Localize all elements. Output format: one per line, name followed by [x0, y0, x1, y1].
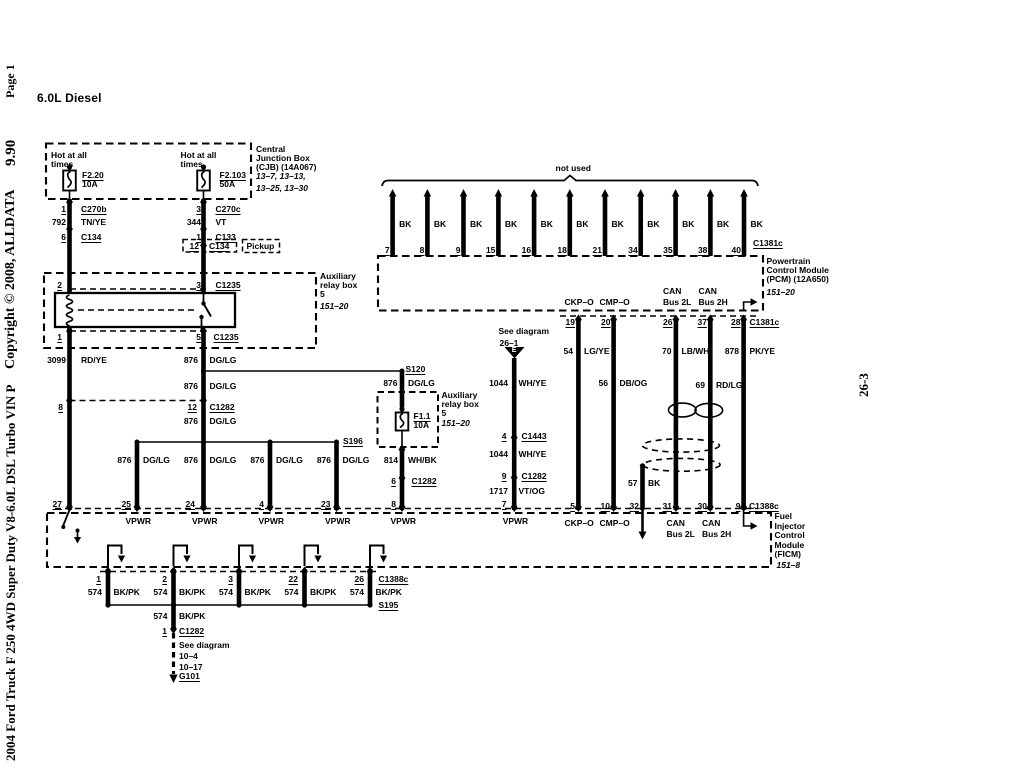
wire 574 BK/PK 2	[171, 569, 176, 605]
sidebar vehicle text	[3, 385, 19, 761]
ground G101 arrow	[169, 675, 177, 684]
connector C1282 marker on WH/BK	[399, 473, 406, 483]
not-used wire BK pin 34	[638, 194, 643, 256]
S196 junction dot 3	[268, 440, 273, 445]
wire from PCM x=613.6	[611, 318, 616, 510]
pin 12 C134 pickup labels	[190, 242, 199, 251]
wire label 1044 WH/YE second	[489, 450, 508, 459]
splice S120 junction dot	[201, 369, 206, 374]
PCM page-reference arrow hook	[744, 302, 751, 311]
pin 9 C1282 labels feed	[502, 472, 507, 481]
relay pin 3 and C1235 labels	[196, 281, 201, 290]
wire labels 56 DB/OG 69 RD/LG	[599, 379, 608, 388]
BK wire down arrow	[639, 532, 647, 540]
FICM injector output hook 3	[239, 546, 253, 567]
Auxiliary relay box 5 dashed box (relay)	[44, 273, 316, 348]
Auxiliary relay box 5 label (right)	[442, 391, 478, 400]
FICM power relay solid box	[55, 293, 235, 327]
splice S196 label	[343, 437, 363, 446]
wire label 792 TN/YE	[52, 218, 66, 227]
not-used wire BK pin 15	[496, 194, 501, 256]
connector exit marker wire A	[66, 197, 73, 207]
connector C134 pickup marker wire B	[200, 241, 207, 251]
fuse F2.103 label	[220, 171, 246, 180]
wire 814 WH/BK	[400, 447, 405, 510]
pin 1 C133 labels	[196, 233, 201, 242]
connector C1381c label top	[753, 239, 783, 248]
FICM pin entry marker	[200, 502, 207, 512]
S196 junction dot 4	[334, 440, 339, 445]
relay pin 2 label	[57, 281, 62, 290]
marker below aux box	[399, 445, 406, 455]
wire 574 BK/PK 1	[106, 569, 111, 605]
wire labels 876 DG/LG drops	[117, 456, 131, 465]
PCM output labels CKP-O CMP-O CAN	[565, 298, 594, 307]
PCM pin labels 19 20 26 37 28	[566, 318, 575, 327]
wire 876 DG/LG drop 4 to FICM	[334, 442, 339, 510]
PCM title text	[767, 257, 811, 266]
BK wire labels	[399, 220, 411, 229]
wire label 876 DG/LG third	[184, 417, 198, 426]
connector C1443 marker	[511, 433, 518, 443]
wire label 1717 VT/OG	[489, 487, 508, 496]
wire to splice S120	[204, 370, 403, 372]
fuse F1.1 label	[414, 412, 431, 421]
connector C1388c label right	[749, 502, 779, 511]
FICM pin entry marker	[267, 502, 274, 512]
dashed link pin8 to pin12 C1282	[70, 400, 204, 402]
pin 1 C270b labels	[61, 205, 66, 214]
connector C1235 dashed row bottom	[70, 330, 207, 332]
page title 6.0L Diesel	[37, 94, 102, 103]
page number 26-3	[856, 373, 872, 397]
Auxiliary relay box 5 dashed box (fuse F1.1)	[378, 392, 439, 447]
connector C134 marker wire A	[66, 224, 73, 234]
FICM pin entry marker	[333, 502, 340, 512]
pin 6 C134 labels	[61, 233, 66, 242]
Central Junction Box (CJB) dashed box	[46, 144, 251, 200]
dashed box around 12 C134	[183, 240, 237, 253]
connector C1381c dashed row bottom	[560, 315, 758, 317]
wire from PCM x=675.9	[674, 318, 679, 510]
S120 top dot	[400, 369, 405, 374]
FICM page-reference arrow hook	[744, 511, 751, 526]
wire 876 DG/LG drop 3 to FICM	[268, 442, 273, 510]
wire VT circuit 344	[201, 199, 206, 293]
FICM injector output hook 2	[174, 546, 188, 567]
FICM pin labels 27 25 24 4 23 8	[53, 500, 62, 509]
not-used pin number labels	[385, 246, 390, 255]
not-used wire BK pin 21	[603, 194, 608, 256]
wire 574 BK/PK 5	[368, 569, 373, 605]
connector C133 marker wire B	[200, 224, 207, 234]
FICM pin labels 5 10 32 31 30 9	[570, 502, 575, 511]
FICM internal switch below pin 27	[63, 510, 70, 526]
FICM pin entry marker	[134, 502, 141, 512]
S196 junction dot 1	[135, 440, 140, 445]
wire S120 down to fuse F1.1	[400, 371, 405, 407]
CJB title text	[256, 145, 285, 154]
FICM pin entry marker	[399, 502, 406, 512]
FICM injector output hook 5	[370, 546, 384, 567]
wire relay contact to pin 5	[201, 317, 203, 331]
connector C1235 dashed row top	[70, 288, 207, 290]
fuse F2.20 label	[82, 171, 104, 180]
not-used wire BK pin 18	[567, 194, 572, 256]
wire 574 BK/PK to ground	[171, 605, 176, 628]
not-used wire BK pin 35	[673, 194, 678, 256]
wire TN/YE circuit 792	[67, 199, 72, 293]
FICM pin entry marker	[66, 502, 73, 512]
not used label	[556, 164, 591, 173]
hot at all times label left	[51, 151, 87, 160]
pin 8 label on RD/YE wire	[58, 403, 63, 412]
wire 574 BK/PK 4	[302, 569, 307, 605]
letter E in triangle	[512, 346, 517, 355]
not-used wire BK pin 8	[425, 194, 430, 256]
see diagram note ground	[179, 641, 230, 650]
splice S120 label	[406, 365, 426, 374]
connector marker pin1 C1235	[66, 326, 73, 336]
connector C1388c label (outputs)	[379, 575, 409, 584]
wire from PCM x=743.6	[741, 318, 746, 510]
pin 6 C1282 labels on WH/BK	[391, 477, 396, 486]
wire label 574 BK/PK ground	[153, 612, 167, 621]
wire labels 574 BK/PK	[88, 588, 102, 597]
wire 57 BK shield drain	[640, 466, 645, 510]
not-used wire BK pin 16	[532, 194, 537, 256]
connector C1388c dashed row (top)	[55, 508, 758, 510]
wire label 876 DG/LG first	[184, 356, 198, 365]
wire labels 54 LG/YE 70 LB/WH 878 PK/YE	[564, 347, 573, 356]
fuse F2.103 50A	[197, 164, 210, 190]
wire label 3099 RD/YE	[47, 356, 66, 365]
relay switch fixed contact	[199, 315, 203, 319]
wire 574 BK/PK 3	[237, 569, 242, 605]
not used brace	[382, 176, 758, 187]
wire fuse F2.20 to CJB edge	[69, 191, 71, 200]
wire from PCM x=578.4	[576, 318, 581, 510]
wire BK below connector to arrow	[641, 510, 644, 532]
wire label 57 BK	[628, 479, 637, 488]
fuse F2.20 10A	[63, 164, 76, 190]
pin 3 C270c labels	[196, 205, 201, 214]
wire label 344 VT	[187, 218, 201, 227]
pin 12 C1282 labels	[188, 403, 197, 412]
FICM internal arrow dot	[76, 529, 80, 533]
dashed wire to G101	[172, 633, 175, 674]
wire from PCM x=710.3	[708, 318, 713, 510]
FICM injector output hook 4	[305, 546, 319, 567]
sidebar page text	[3, 64, 18, 98]
wire label 876 DG/LG second	[184, 382, 198, 391]
FICM input labels CKP CMP CAN	[565, 519, 594, 528]
wire label 1044 WH/YE first	[489, 379, 508, 388]
wire RD/YE circuit 3099	[67, 327, 72, 510]
wire label 876 DG/LG at S120 branch	[383, 379, 397, 388]
S196 junction dot 2	[201, 440, 206, 445]
wire label 814 WH/BK	[384, 456, 398, 465]
wire DG/LG circuit 876 main	[201, 331, 206, 510]
relay coil	[67, 295, 73, 326]
pin 12 marker C1282	[200, 396, 207, 406]
pin 7 label feed	[502, 500, 507, 509]
fuse F1.1 10A	[396, 406, 409, 430]
pin 4 C1443 labels	[502, 432, 507, 441]
connector C1282 marker feed	[511, 473, 518, 483]
sidebar version text	[3, 139, 20, 165]
see diagram 26-1 note	[499, 327, 550, 336]
relay pin 1 label	[57, 333, 62, 342]
not-used wire BK pin 38	[708, 194, 713, 256]
not-used wire BK pin 9	[461, 194, 466, 256]
VPWR labels	[126, 517, 152, 526]
shield drain junction dot	[640, 463, 645, 468]
FICM injector output hook 1	[108, 546, 122, 567]
Powertrain Control Module PCM dashed box	[378, 256, 763, 311]
connector C1381c label bottom	[750, 318, 780, 327]
dashed box Pickup	[243, 240, 280, 253]
hot at all times label right	[181, 151, 217, 160]
FICM title text right	[775, 512, 792, 521]
splice S195 horizontal wire	[108, 604, 370, 606]
pin 8 marker on RD/YE wire	[66, 396, 73, 406]
connector marker pin5 C1235	[200, 326, 207, 336]
relay switch blade	[203, 293, 205, 302]
splice S196 horizontal wire	[137, 441, 337, 443]
twisted pair symbol CAN bus	[669, 403, 697, 417]
wire fuse F2.103 to CJB edge	[203, 191, 205, 200]
splice S195 label	[379, 601, 399, 610]
output pin labels 1 2 3 22 26	[96, 575, 101, 584]
connector C1282 marker ground wire	[170, 624, 177, 634]
wire fuse F1.1 to box edge	[401, 431, 403, 448]
not-used wire BK pin 7	[390, 194, 395, 256]
sidebar copyright text	[3, 189, 19, 369]
not-used wire BK pin 40	[742, 194, 747, 256]
power feed triangle E	[505, 347, 525, 359]
pin 1 C1282 labels ground	[162, 627, 167, 636]
relay actuator dashed link	[78, 309, 198, 311]
relay pin 5 and C1235 labels	[196, 333, 201, 342]
connector exit marker wire B	[200, 197, 207, 207]
wire 876 DG/LG drop 1 to FICM	[135, 442, 140, 510]
Auxiliary relay box 5 label	[320, 272, 356, 281]
Fuel Injector Control Module FICM dashed box	[47, 513, 771, 567]
wire 1044 WH/YE feed	[512, 358, 517, 510]
connector C1388c dashed row (bottom outputs)	[100, 571, 378, 573]
shield symbol around CAN bus	[643, 439, 720, 452]
